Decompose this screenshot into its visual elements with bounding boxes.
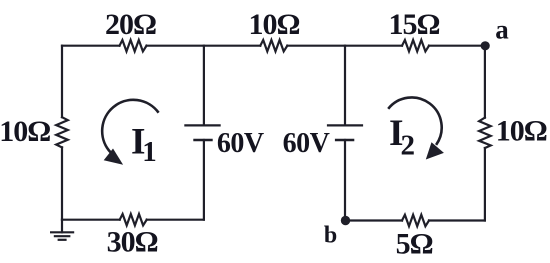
- wire from junction x=345 to 15ohm resistor: [345, 45, 402, 47]
- wire bottom-left (ground corner to 30ohm): [62, 219, 120, 221]
- svg-text:5Ω: 5Ω: [396, 228, 433, 261]
- mesh current I1 arrowhead: [104, 149, 123, 165]
- resistor R 30ohm (bottom left, horizontal zigzag): [120, 214, 147, 225]
- svg-text:2: 2: [401, 130, 416, 162]
- wire battery branch 2 lower down to node b: [344, 140, 346, 221]
- svg-text:60V: 60V: [283, 128, 330, 159]
- wire left side lower: [61, 147, 63, 219]
- wire bottom-right (node b to 5ohm): [346, 219, 403, 221]
- mesh current I1 arrow arc: [102, 100, 158, 153]
- mesh current I2 arrowhead: [426, 142, 444, 159]
- wire right side lower: [484, 148, 486, 221]
- node b dot: [341, 216, 350, 225]
- battery V1 60V short plate: [195, 139, 212, 142]
- wire battery branch 1 upper (junction down to battery plate): [203, 46, 205, 126]
- wire battery branch 2 upper: [344, 46, 346, 126]
- ground bar 1: [51, 231, 73, 233]
- wire from 30ohm to battery-1 bottom corner: [147, 219, 204, 221]
- resistor R 10ohm (right side, vertical zigzag): [479, 118, 491, 148]
- wire from 15ohm to node a: [429, 45, 485, 47]
- resistor R 10ohm (top middle, horizontal zigzag): [260, 40, 287, 51]
- mesh current I2 arrow arc: [388, 97, 441, 144]
- wire from 20ohm to junction node at x=204: [147, 45, 204, 47]
- resistor R 10ohm (left side, vertical zigzag): [56, 117, 68, 147]
- wire from 5ohm to bottom-right corner: [429, 219, 485, 221]
- node a dot: [481, 41, 490, 50]
- svg-text:1: 1: [142, 136, 157, 168]
- battery V2 60V long plate: [328, 124, 362, 126]
- svg-text:b: b: [324, 222, 337, 248]
- battery V2 60V short plate: [336, 139, 353, 142]
- ground bar 3: [59, 239, 66, 241]
- wire from junction to 10ohm top resistor: [204, 45, 260, 47]
- resistor R 5ohm (bottom right, horizontal zigzag): [402, 215, 429, 226]
- wire left side upper (corner down to 10ohm): [61, 46, 63, 118]
- svg-text:30Ω: 30Ω: [107, 226, 158, 259]
- svg-text:a: a: [495, 15, 509, 45]
- resistor R 20ohm (top left, horizontal zigzag): [120, 40, 147, 51]
- wire battery branch 1 lower: [203, 140, 205, 220]
- resistor R 15ohm (top right, horizontal zigzag): [402, 40, 429, 51]
- svg-text:10Ω: 10Ω: [248, 8, 299, 41]
- svg-text:10Ω: 10Ω: [0, 115, 50, 148]
- battery V1 60V long plate: [185, 124, 219, 126]
- wire from top 10ohm to junction node at x=345: [287, 45, 345, 47]
- svg-text:60V: 60V: [217, 128, 264, 159]
- ground stem: [61, 220, 63, 233]
- svg-text:10Ω: 10Ω: [496, 115, 547, 148]
- wire right side upper (node a down to 10ohm): [484, 46, 486, 118]
- svg-text:15Ω: 15Ω: [388, 8, 439, 41]
- wire top-left segment (top-left corner to 20ohm resistor): [62, 45, 120, 47]
- ground bar 2: [55, 235, 69, 237]
- svg-text:20Ω: 20Ω: [105, 8, 156, 41]
